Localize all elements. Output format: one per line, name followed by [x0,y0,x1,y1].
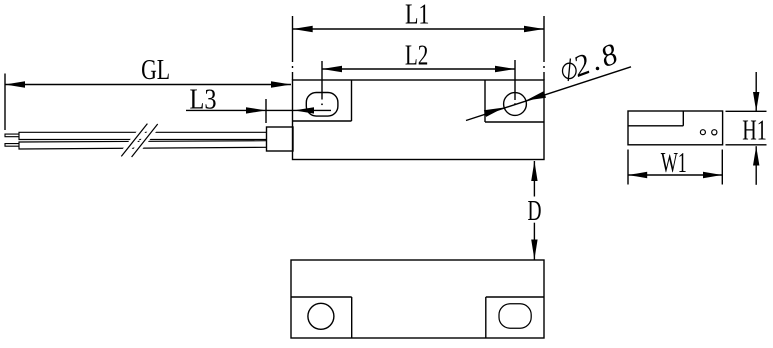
right round hole [504,93,527,116]
magnet left tab step [291,297,352,338]
dimension H1 [726,72,767,185]
svg-text:2.8: 2.8 [569,38,622,84]
magnet right slot hole [499,304,531,328]
cable boot [267,127,294,151]
main sensor body (top view) [293,80,545,160]
svg-text:GL: GL [141,55,170,86]
magnet body (bottom view) [291,260,544,338]
cable break symbol [121,124,157,157]
svg-text:L3: L3 [190,84,217,115]
svg-text:L2: L2 [405,40,429,71]
dimension L3 [186,99,331,123]
side view step [628,111,683,126]
svg-text:D: D [528,196,542,227]
right mounting tab step [485,80,544,122]
svg-text:W1: W1 [661,148,687,179]
dimension GL [5,74,291,131]
magnet right tab step [486,297,544,338]
left mounting tab step [293,80,352,121]
svg-text:L1: L1 [405,0,430,31]
left slot hole [306,93,338,117]
side view wire holes [700,130,717,135]
bottom wire bare end [5,144,19,147]
diameter leader 2.8 [466,67,631,121]
bottom wire [19,141,267,149]
top wire [19,132,267,139]
top wire bare end [5,134,19,137]
dimension L2 [322,60,515,100]
dimension W1 [628,150,722,185]
svg-text:H1: H1 [742,116,767,147]
side view body [628,111,723,145]
dimension D [531,161,537,260]
dimension L1 [293,16,545,80]
magnet left round hole [308,303,334,329]
label diameter 2.8 [563,38,622,84]
